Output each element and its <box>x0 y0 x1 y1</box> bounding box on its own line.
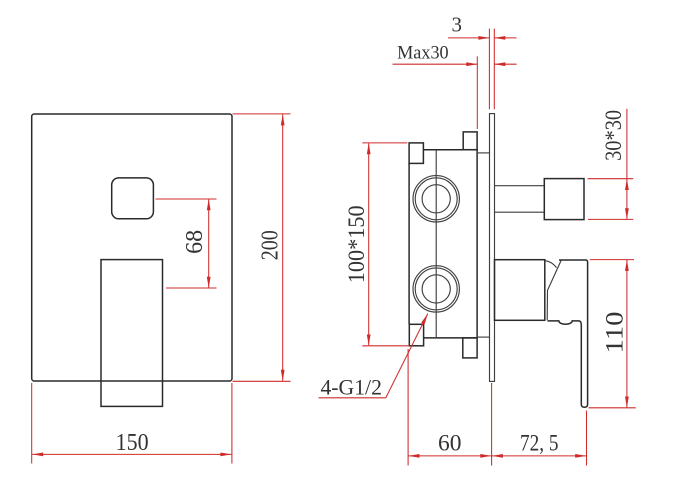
mixer handle (front view) <box>101 260 163 407</box>
dimension 3 (plate thickness) <box>448 13 517 110</box>
mounting tab bottom-left <box>409 324 423 346</box>
mounting tab top-right <box>463 132 477 150</box>
dimension 72,5 <box>492 411 587 466</box>
svg-text:30*30: 30*30 <box>601 110 626 161</box>
spout pipe <box>495 186 545 213</box>
svg-text:72, 5: 72, 5 <box>520 430 559 455</box>
valve body (side view) <box>409 150 477 338</box>
mounting tab bottom-right <box>463 338 477 358</box>
svg-text:68: 68 <box>182 230 208 254</box>
wall plate (side view) <box>490 114 495 382</box>
top inlet port G1/2 <box>413 176 459 222</box>
lever handle (side view) <box>545 260 588 407</box>
svg-text:Max30: Max30 <box>397 43 449 64</box>
dimension 200 <box>233 114 291 381</box>
cartridge housing <box>495 260 545 321</box>
svg-text:4-G1/2: 4-G1/2 <box>320 375 382 400</box>
dimension 30*30 <box>588 109 634 220</box>
svg-text:100*150: 100*150 <box>344 205 369 283</box>
dimension 150 <box>32 383 232 464</box>
diverter button <box>112 178 154 219</box>
svg-text:3: 3 <box>452 13 463 37</box>
front-view wall plate <box>32 114 232 381</box>
leader 4-G1/2 <box>319 314 428 400</box>
svg-text:110: 110 <box>601 312 628 354</box>
dimension 68 <box>156 199 217 288</box>
dimension 100*150 <box>344 143 410 346</box>
spout end block 30*30 <box>544 179 584 220</box>
dimension Max30 <box>393 43 517 129</box>
bottom inlet port G1/2 <box>413 266 459 312</box>
svg-text:60: 60 <box>438 430 462 455</box>
body-to-plate connector top <box>477 152 489 154</box>
body centre line <box>435 150 437 338</box>
svg-text:200: 200 <box>258 230 284 260</box>
dimension 110 <box>589 260 636 408</box>
mounting tab top-left <box>409 143 423 164</box>
svg-text:150: 150 <box>116 430 149 456</box>
body-to-plate connector bottom <box>477 336 489 338</box>
dimension 60 <box>408 349 492 466</box>
